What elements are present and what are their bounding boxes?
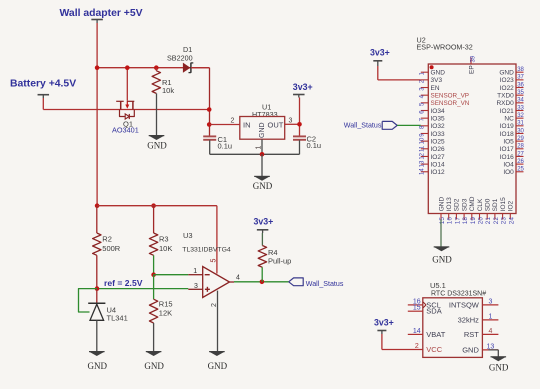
svg-text:22: 22 xyxy=(493,217,500,225)
svg-text:EN: EN xyxy=(431,85,440,92)
svg-text:18: 18 xyxy=(462,217,469,225)
svg-text:24: 24 xyxy=(508,217,515,225)
svg-text:10K: 10K xyxy=(159,244,172,253)
svg-text:38: 38 xyxy=(517,67,524,73)
svg-text:OUT: OUT xyxy=(268,120,284,129)
svg-text:TXD0: TXD0 xyxy=(497,92,514,99)
svg-text:IO2: IO2 xyxy=(508,200,515,211)
svg-text:20: 20 xyxy=(478,217,485,225)
svg-text:IO5: IO5 xyxy=(503,138,514,145)
svg-text:IO26: IO26 xyxy=(431,146,445,153)
svg-text:IO27: IO27 xyxy=(431,154,445,161)
svg-text:Wall_Status: Wall_Status xyxy=(344,121,382,129)
svg-text:Wall_Status: Wall_Status xyxy=(306,280,344,288)
svg-text:IO4: IO4 xyxy=(503,161,514,168)
svg-text:21: 21 xyxy=(485,217,492,225)
svg-text:36: 36 xyxy=(517,82,524,88)
svg-text:IO17: IO17 xyxy=(500,146,514,153)
svg-text:3: 3 xyxy=(488,298,492,305)
svg-text:HT7833: HT7833 xyxy=(252,110,278,119)
svg-text:3: 3 xyxy=(289,117,293,124)
svg-text:1: 1 xyxy=(255,146,262,150)
svg-text:ref = 2.5V: ref = 2.5V xyxy=(104,278,143,288)
svg-text:RST: RST xyxy=(464,330,479,339)
svg-text:16: 16 xyxy=(447,217,454,225)
svg-text:U3: U3 xyxy=(183,231,193,240)
svg-text:14: 14 xyxy=(420,168,426,175)
svg-text:GND: GND xyxy=(499,70,514,77)
svg-text:GND: GND xyxy=(147,141,167,151)
svg-text:Wall adapter +5V: Wall adapter +5V xyxy=(60,8,143,19)
svg-text:12: 12 xyxy=(420,152,426,159)
svg-text:IO12: IO12 xyxy=(431,169,445,176)
svg-text:13: 13 xyxy=(420,160,426,167)
svg-text:IO25: IO25 xyxy=(431,138,445,145)
svg-text:IO34: IO34 xyxy=(431,108,445,115)
svg-text:30: 30 xyxy=(517,128,524,134)
svg-text:3v3+: 3v3+ xyxy=(254,216,274,226)
svg-text:0.1u: 0.1u xyxy=(218,142,233,151)
svg-text:34: 34 xyxy=(517,98,524,104)
svg-text:GND: GND xyxy=(253,181,273,191)
svg-text:R2: R2 xyxy=(102,235,112,244)
svg-text:SENSOR_VP: SENSOR_VP xyxy=(431,92,470,99)
svg-text:AO3401: AO3401 xyxy=(112,126,139,135)
svg-text:14: 14 xyxy=(413,328,421,335)
svg-text:29: 29 xyxy=(517,136,524,142)
svg-text:VBAT: VBAT xyxy=(426,330,445,339)
svg-text:GND: GND xyxy=(88,361,108,371)
svg-text:4: 4 xyxy=(236,274,240,281)
svg-text:3v3+: 3v3+ xyxy=(374,317,394,327)
svg-text:CMD: CMD xyxy=(469,196,476,211)
svg-text:IO23: IO23 xyxy=(500,77,514,84)
svg-text:3V3: 3V3 xyxy=(431,77,443,84)
svg-text:R3: R3 xyxy=(159,235,169,244)
svg-text:500R: 500R xyxy=(102,244,121,253)
svg-text:GND: GND xyxy=(432,255,452,265)
svg-text:R15: R15 xyxy=(159,300,173,309)
svg-text:17: 17 xyxy=(454,217,461,225)
svg-text:Battery +4.5V: Battery +4.5V xyxy=(10,79,76,90)
svg-text:15: 15 xyxy=(413,305,421,312)
svg-text:IO13: IO13 xyxy=(446,197,453,211)
svg-text:IO35: IO35 xyxy=(431,115,445,122)
svg-text:2: 2 xyxy=(211,303,218,307)
svg-text:1: 1 xyxy=(488,313,492,320)
svg-text:10k: 10k xyxy=(162,86,174,95)
svg-text:5: 5 xyxy=(211,259,218,263)
svg-text:GND: GND xyxy=(489,363,509,373)
svg-text:27: 27 xyxy=(517,151,524,157)
svg-text:EP: EP xyxy=(469,65,476,74)
svg-text:GND: GND xyxy=(208,361,228,371)
svg-text:NC: NC xyxy=(504,115,514,122)
svg-text:12K: 12K xyxy=(159,308,172,317)
svg-text:SD1: SD1 xyxy=(492,198,499,211)
svg-text:GND: GND xyxy=(144,361,164,371)
svg-text:3v3+: 3v3+ xyxy=(293,82,313,92)
svg-text:SB2200: SB2200 xyxy=(167,53,193,62)
svg-text:31: 31 xyxy=(517,121,524,127)
svg-text:SDA: SDA xyxy=(426,307,441,316)
svg-text:TL331IDBVTG4: TL331IDBVTG4 xyxy=(182,246,231,253)
svg-text:IO33: IO33 xyxy=(431,131,445,138)
svg-text:GND: GND xyxy=(462,345,479,354)
svg-text:GND: GND xyxy=(259,122,266,138)
svg-text:IO32: IO32 xyxy=(431,123,445,130)
svg-text:32kHz: 32kHz xyxy=(458,315,480,324)
svg-text:26: 26 xyxy=(517,159,524,165)
svg-text:IO21: IO21 xyxy=(500,108,514,115)
svg-text:23: 23 xyxy=(501,217,508,225)
svg-text:IO0: IO0 xyxy=(503,169,514,176)
svg-text:SD0: SD0 xyxy=(485,198,492,211)
svg-text:IO16: IO16 xyxy=(500,154,514,161)
svg-text:2: 2 xyxy=(231,118,235,125)
svg-text:IO15: IO15 xyxy=(500,197,507,211)
svg-text:37: 37 xyxy=(517,75,524,81)
svg-text:SD2: SD2 xyxy=(454,198,461,211)
svg-text:SENSOR_VN: SENSOR_VN xyxy=(431,100,470,107)
svg-text:39: 39 xyxy=(471,55,477,62)
svg-text:11: 11 xyxy=(420,145,426,152)
svg-text:35: 35 xyxy=(517,90,524,96)
svg-text:TL341: TL341 xyxy=(107,314,128,323)
svg-text:INTSQW: INTSQW xyxy=(449,300,480,309)
svg-text:25: 25 xyxy=(517,167,524,173)
svg-text:RTC DS3231SN#: RTC DS3231SN# xyxy=(431,290,486,297)
svg-text:15: 15 xyxy=(439,217,446,225)
svg-text:IO19: IO19 xyxy=(500,123,514,130)
svg-text:3: 3 xyxy=(194,283,198,290)
svg-text:3v3+: 3v3+ xyxy=(370,48,390,58)
svg-text:GND: GND xyxy=(431,70,446,77)
svg-text:RXD0: RXD0 xyxy=(496,100,514,107)
svg-text:19: 19 xyxy=(470,217,477,225)
svg-text:4: 4 xyxy=(488,328,492,335)
svg-text:ESP-WROOM-32: ESP-WROOM-32 xyxy=(417,43,473,52)
svg-text:0.1u: 0.1u xyxy=(307,141,322,150)
svg-text:IN: IN xyxy=(243,120,251,129)
svg-text:CLK: CLK xyxy=(477,198,484,211)
svg-text:U5.1: U5.1 xyxy=(430,281,446,290)
svg-text:10: 10 xyxy=(420,137,426,144)
svg-text:VCC: VCC xyxy=(426,345,442,354)
svg-text:1: 1 xyxy=(193,268,197,275)
svg-text:Pull-up: Pull-up xyxy=(268,257,291,266)
svg-text:GND: GND xyxy=(438,197,445,212)
svg-text:SD3: SD3 xyxy=(461,198,468,211)
svg-text:33: 33 xyxy=(517,105,524,111)
svg-text:28: 28 xyxy=(517,144,524,150)
svg-text:IO18: IO18 xyxy=(500,131,514,138)
svg-text:IO22: IO22 xyxy=(500,85,514,92)
svg-text:IO14: IO14 xyxy=(431,161,445,168)
svg-text:32: 32 xyxy=(517,113,524,119)
